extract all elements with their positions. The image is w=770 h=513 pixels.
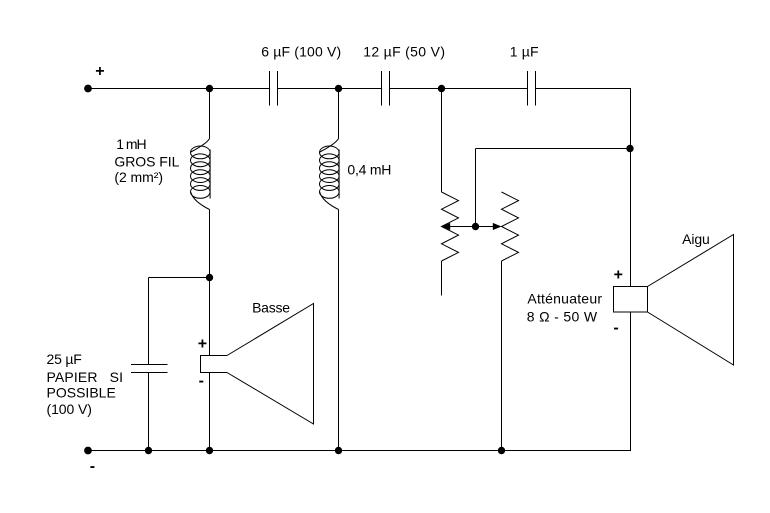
- inductor L2 0.4mH coil: [320, 139, 340, 210]
- svg-text:12 µF (50 V): 12 µF (50 V): [363, 43, 445, 59]
- capacitor C3 1uF left plate: [527, 71, 529, 106]
- wire node C down to L2 top: [338, 89, 340, 139]
- wire C4 branch vertical top: [148, 278, 150, 365]
- svg-text:+: +: [614, 266, 623, 283]
- node J bottom rail x338: [335, 447, 342, 454]
- wire top rail segment D (C3 to right corner): [536, 88, 632, 90]
- node minus output terminal: [84, 447, 92, 455]
- wire R1 bottom open lead: [441, 261, 443, 296]
- wire node E to C4 branch horizontal: [149, 277, 210, 279]
- svg-text:+: +: [198, 335, 207, 352]
- wire top rail segment B (C1 to node B): [278, 88, 382, 90]
- node D junction top rail x442: [438, 85, 445, 92]
- arrow wiper R1: [442, 223, 451, 230]
- wire L2 bottom to bottom rail: [338, 210, 340, 451]
- svg-text:8 Ω - 50 W: 8 Ω - 50 W: [527, 308, 598, 324]
- svg-text:6 µF (100 V): 6 µF (100 V): [261, 43, 341, 59]
- node K bottom rail x501: [498, 447, 505, 454]
- speaker LS1 woofer frame: [201, 356, 228, 373]
- node plus input terminal: [84, 85, 92, 93]
- wire wiper up: [475, 149, 477, 227]
- wire top rail segment C (C2 to node C): [390, 88, 528, 90]
- wire tweeter minus to bottom rail: [630, 312, 632, 451]
- node H bottom rail x148: [145, 447, 152, 454]
- capacitor C3 1uF right plate: [535, 71, 537, 106]
- potentiometer R2 resistive element: [502, 192, 519, 261]
- wire node D down to R1 top: [441, 89, 443, 193]
- svg-text:(2 mm²): (2 mm²): [114, 169, 163, 185]
- node B junction top rail x209: [206, 85, 213, 92]
- wire C4 branch vertical bottom: [148, 373, 150, 451]
- wire top rail segment A (plus terminal to C1): [88, 88, 270, 90]
- speaker LS1 woofer cone: [227, 304, 314, 425]
- node C junction top rail x338: [335, 85, 342, 92]
- svg-text:-: -: [199, 373, 204, 390]
- svg-text:-: -: [613, 319, 618, 336]
- wire woofer minus terminal to bottom rail: [209, 373, 211, 451]
- capacitor C4 25uF bottom plate: [131, 372, 168, 374]
- svg-text:-: -: [90, 458, 95, 475]
- speaker LS2 tweeter cone: [648, 235, 734, 366]
- node F wiper junction: [472, 223, 479, 230]
- inductor L1 1mH coil: [191, 139, 211, 210]
- svg-text:PAPIER SI: PAPIER SI: [47, 369, 124, 385]
- wire R2 bottom lead to bottom rail: [501, 261, 503, 451]
- wire right rail top (corner to tweeter): [630, 89, 632, 287]
- attenuator block U1 frame: [614, 287, 648, 313]
- wire wiper to tweeter rail: [476, 148, 631, 150]
- wire bottom rail: [88, 450, 631, 452]
- wire wiper horizontal link: [443, 226, 500, 228]
- node E junction x209 y277: [206, 274, 213, 281]
- svg-text:25 µF: 25 µF: [47, 351, 82, 367]
- svg-text:1 mH: 1 mH: [116, 136, 146, 152]
- capacitor C2 12uF left plate: [381, 71, 383, 106]
- svg-text:0,4 mH: 0,4 mH: [347, 162, 391, 178]
- node I bottom rail x209: [206, 447, 213, 454]
- capacitor C2 12uF right plate: [389, 71, 391, 106]
- capacitor C4 25uF top plate: [131, 364, 168, 366]
- node G tweeter rail junction: [626, 145, 633, 152]
- arrow wiper R2: [493, 223, 502, 230]
- svg-text:GROS FIL: GROS FIL: [114, 153, 179, 169]
- svg-text:Atténuateur: Atténuateur: [527, 291, 602, 307]
- svg-text:+: +: [95, 63, 104, 80]
- wire node B down to L1 top: [209, 89, 211, 139]
- svg-text:1 µF: 1 µF: [510, 43, 539, 59]
- wire L1 bottom to node E: [209, 210, 211, 278]
- wire node E down to woofer plus terminal: [209, 278, 211, 356]
- capacitor C1 6uF left plate: [269, 71, 271, 106]
- svg-text:POSSIBLE: POSSIBLE: [47, 385, 116, 401]
- potentiometer R1 resistive element: [442, 192, 459, 261]
- capacitor C1 6uF right plate: [277, 71, 279, 106]
- svg-text:Aigu: Aigu: [682, 231, 710, 247]
- svg-text:(100 V): (100 V): [47, 401, 92, 417]
- svg-text:Basse: Basse: [252, 300, 290, 316]
